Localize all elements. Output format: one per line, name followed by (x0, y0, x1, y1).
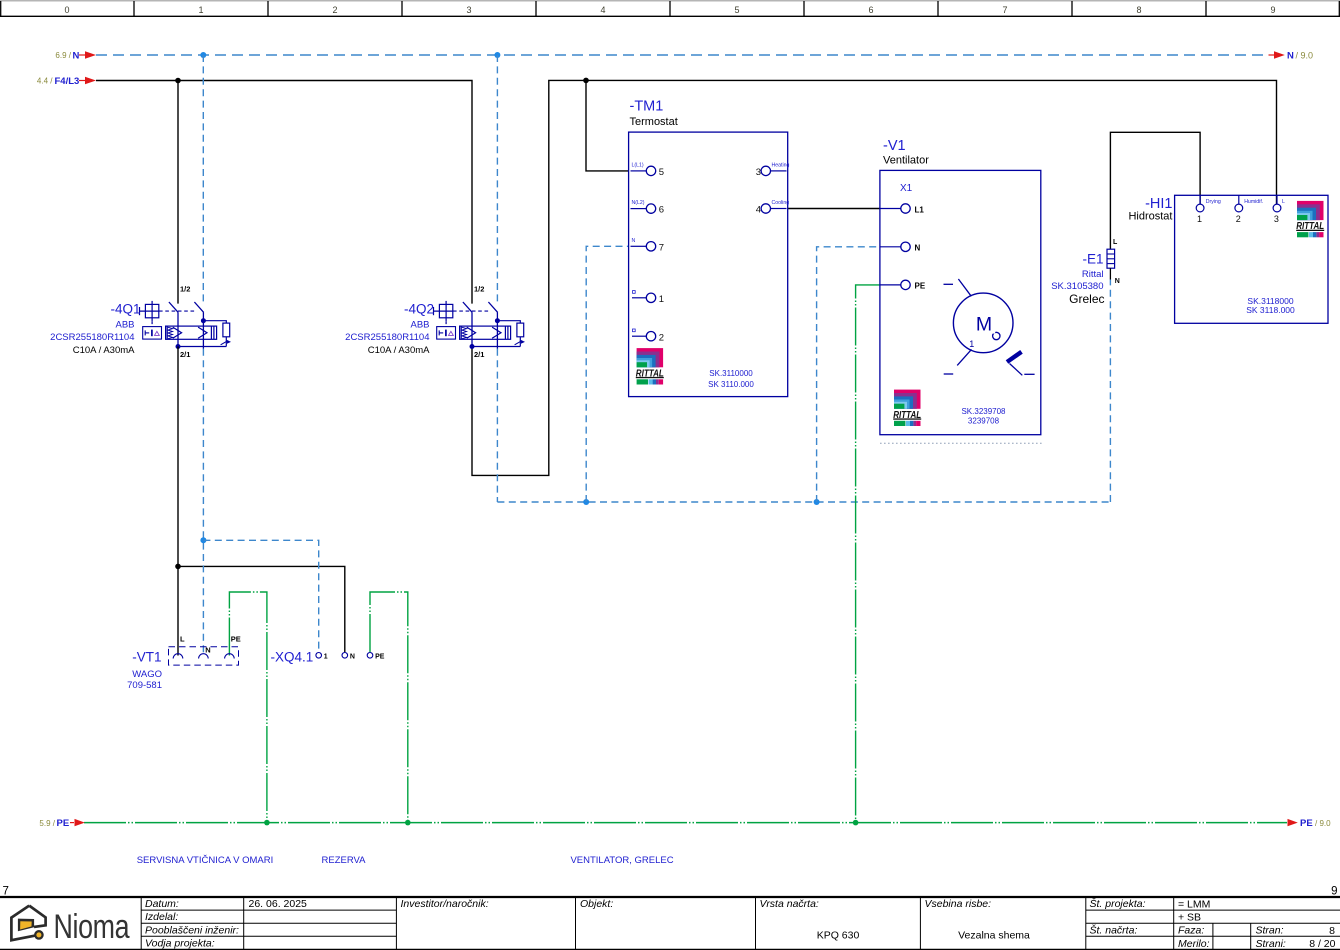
svg-text:+ SB: + SB (1178, 911, 1201, 923)
motor pin lower-left (944, 373, 954, 375)
breaker -4Q1 mechanism dashed link (159, 310, 197, 312)
wire L branch to -XQ4.1 N terminal (178, 566, 345, 652)
breaker -4Q1 body box (166, 326, 217, 339)
wire TM1 terminal 5 feed (586, 80, 629, 170)
terminal V1 L1 (880, 208, 901, 210)
wire PE to -VT1 (229, 592, 267, 823)
node -4Q1 pole2 test branch dot (201, 318, 206, 323)
node PE bus dot at -VT1 branch (264, 820, 270, 826)
svg-text:8 / 20: 8 / 20 (1309, 938, 1335, 950)
svg-text:7: 7 (659, 242, 664, 253)
svg-text:Stran:: Stran: (1256, 925, 1284, 937)
svg-text:L: L (1113, 239, 1118, 246)
svg-text:5.9 /: 5.9 / (39, 819, 55, 828)
breaker -4Q1 test actuator arrow (221, 341, 227, 345)
svg-text:Vodja projekta:: Vodja projekta: (145, 938, 215, 950)
svg-text:7: 7 (3, 886, 9, 898)
wire -E1 bottom stub (1109, 268, 1111, 279)
wire -4Q1 test resistor bottom (225, 337, 227, 347)
svg-text:N: N (73, 51, 80, 62)
svg-text:4.4 /: 4.4 / (37, 77, 53, 86)
svg-text:ABB: ABB (115, 319, 134, 330)
svg-text:-V1: -V1 (883, 138, 906, 154)
wire hidden function line under V1 (880, 442, 1042, 444)
resistor -4Q2 test (517, 323, 524, 337)
hygrostat U HI1 box (1175, 195, 1328, 323)
column ruler numbers (64, 5, 1275, 15)
svg-text:Vezalna shema: Vezalna shema (958, 929, 1030, 941)
svg-text:Pooblaščeni inženir:: Pooblaščeni inženir: (145, 924, 239, 936)
svg-text:2CSR255180R1104: 2CSR255180R1104 (50, 332, 134, 343)
svg-text:2/1: 2/1 (180, 350, 190, 359)
svg-text:3: 3 (466, 5, 471, 15)
node PE bus dot at -XQ4.1 branch (405, 820, 411, 826)
svg-text:SK.3239708: SK.3239708 (961, 407, 1006, 416)
svg-text:9: 9 (1270, 5, 1275, 15)
node N bus (neutral, dashed) (96, 54, 1267, 56)
svg-text:SK 3118.000: SK 3118.000 (1246, 305, 1295, 315)
wire N branch to -XQ4.1 terminal 1 (203, 540, 318, 652)
terminal TM1 pin 4 (771, 208, 787, 210)
svg-text:9: 9 (1331, 886, 1337, 898)
svg-text:5: 5 (734, 5, 739, 15)
wire -4Q1 pole1 through body (177, 312, 179, 346)
svg-text:SK.3105380: SK.3105380 (1051, 281, 1103, 292)
heater -E1 element (1107, 249, 1115, 268)
terminal HI1 pin 2 (1238, 195, 1240, 204)
terminal TM1 pin 7 (631, 245, 647, 247)
socket -VT1 contact PE (225, 654, 235, 659)
target arrow N right (1269, 54, 1275, 56)
node PE bus dot at -V1 branch (853, 820, 859, 826)
wire -4Q1 pole2 through body (202, 312, 204, 348)
wire -4Q2 pole2 output down (dashed N) (496, 349, 498, 502)
wire -4Q1 pole2 output down to -VT1 N (dashed N) (202, 349, 204, 656)
ventilator U V1 box (880, 170, 1041, 434)
svg-text:0: 0 (64, 5, 69, 15)
terminal TM1 pin 6 (631, 208, 647, 210)
svg-text:L: L (180, 635, 185, 644)
svg-text:1: 1 (659, 294, 664, 305)
column ruler ticks (1, 1, 1340, 16)
svg-text:KPQ 630: KPQ 630 (817, 929, 860, 941)
heater -E1 wire loop to HI1 pin 1 (1110, 132, 1200, 249)
svg-text:PE: PE (375, 653, 385, 660)
svg-text:1/2: 1/2 (180, 285, 190, 294)
svg-text:PE: PE (57, 818, 70, 829)
node -4Q2 pole1 output dot (470, 344, 475, 349)
breaker -4Q2 contact blade pole1 (463, 302, 472, 312)
svg-text:C10A / A30mA: C10A / A30mA (368, 345, 430, 356)
svg-text:Humidif.: Humidif. (1244, 199, 1263, 205)
svg-text:26. 06. 2025: 26. 06. 2025 (249, 898, 308, 910)
wire N drop to -4Q2 pole2 (496, 55, 498, 302)
target arrow PE right (1288, 819, 1298, 826)
svg-text:Heating: Heating (772, 162, 790, 168)
motor small circle (993, 332, 1000, 339)
svg-text:6: 6 (868, 5, 873, 15)
svg-text:/ 9.0: / 9.0 (1315, 819, 1331, 828)
svg-text:REZERVA: REZERVA (322, 855, 367, 866)
svg-text:SK.3110000: SK.3110000 (709, 369, 753, 378)
terminal V1 N (880, 246, 901, 248)
column ruler top border (0, 0, 1340, 2)
breaker -4Q1 test-button crossed square (140, 301, 159, 326)
socket -VT1 contact L (173, 654, 183, 659)
svg-text:F4/L3: F4/L3 (55, 76, 80, 87)
svg-text:N: N (632, 238, 636, 244)
terminal HI1 pin 1 (1199, 195, 1201, 204)
resistor -4Q1 test (223, 323, 230, 337)
svg-text:PE: PE (231, 635, 241, 644)
breaker -4Q2 test-button crossed square (434, 301, 453, 326)
node junction dot N run at TM1 branch (583, 499, 589, 505)
terminal TM1 pin 3 (771, 170, 787, 172)
motor M1 circle (953, 293, 1013, 353)
svg-text:N: N (1287, 51, 1294, 62)
wire -4Q1 test resistor branch (203, 321, 226, 323)
svg-text:Grelec: Grelec (1069, 292, 1104, 306)
terminal TM1 pin 5 (631, 170, 647, 172)
wire F4/L3 bus right section via -4Q2 output (472, 80, 1277, 475)
wire N branch to TM1 terminal 7 (586, 246, 628, 502)
title block vertical lines (141, 897, 1251, 950)
node junction dot F4/L3 at -4Q1 tap (175, 78, 181, 84)
wire -4Q2 pole2 through body (496, 312, 498, 348)
svg-text:3: 3 (1274, 214, 1279, 224)
wire -4Q1 pole1 output link (178, 346, 226, 348)
terminal -XQ4.1 pin N (342, 653, 348, 659)
wire -4Q2 test resistor branch (497, 321, 520, 323)
svg-text:Faza:: Faza: (1178, 925, 1204, 937)
node -4Q2 pole2 test branch dot (495, 318, 500, 323)
svg-text:PE: PE (915, 282, 926, 291)
wire -4Q1 pole1 output down to -VT1 L (177, 347, 179, 656)
svg-text:6: 6 (659, 205, 664, 216)
source arrow PE left (70, 822, 74, 824)
wire N run up to -E1 N (1109, 280, 1111, 503)
svg-text:2: 2 (659, 332, 664, 343)
svg-text:N: N (915, 244, 921, 253)
column ruler bottom line (0, 15, 1340, 17)
node junction dot N bus at -4Q2 (494, 52, 500, 58)
svg-text:2CSR255180R1104: 2CSR255180R1104 (345, 332, 429, 343)
terminal -XQ4.1 pin PE (367, 653, 373, 659)
thermostat U TM1 box (629, 132, 788, 397)
terminal V1 PE (880, 284, 901, 286)
svg-text:= LMM: = LMM (1178, 898, 1210, 910)
wire -4Q2 pole1 output link (472, 346, 520, 348)
node F4/L3 bus (96, 81, 472, 304)
svg-text:-TM1: -TM1 (630, 99, 664, 115)
svg-text:PE: PE (1300, 818, 1313, 829)
svg-text:709-581: 709-581 (127, 680, 162, 691)
wire -4Q2 test resistor bottom (519, 337, 521, 347)
node junction dot L branch to -XQ4.1 (175, 564, 181, 570)
wire N distribution run to -E1 (497, 501, 1110, 503)
svg-text:Merilo:: Merilo: (1178, 938, 1210, 950)
node junction dot N branch to -XQ4.1 (200, 537, 206, 543)
svg-text:2: 2 (1236, 214, 1241, 224)
svg-text:M: M (976, 314, 992, 336)
wire -4Q2 pole1 through body (471, 312, 473, 346)
svg-text:-4Q2: -4Q2 (404, 302, 434, 317)
terminal TM1 pin 2 (632, 335, 646, 337)
svg-text:L(L1): L(L1) (632, 162, 644, 168)
svg-text:-4Q1: -4Q1 (110, 302, 140, 317)
svg-text:8: 8 (1136, 5, 1141, 15)
svg-text:Cooling: Cooling (772, 200, 790, 206)
svg-text:6.9 /: 6.9 / (55, 51, 71, 60)
breaker -4Q2 contact blade pole2 (488, 302, 497, 312)
breaker -4Q1 contact blade pole1 (169, 302, 178, 312)
logo Nioma house icon (11, 906, 45, 941)
node PE bus (84, 822, 1287, 824)
socket -VT1 dashed outline (169, 647, 239, 665)
logo Rittal (TM1) (636, 348, 664, 384)
socket -VT1 contact N (199, 654, 209, 659)
svg-text:Vrsta načrta:: Vrsta načrta: (760, 898, 819, 910)
svg-text:/ 9.0: / 9.0 (1296, 50, 1314, 60)
svg-text:Ventilator: Ventilator (883, 155, 929, 167)
svg-text:L: L (1282, 199, 1285, 205)
wire N branch to -V1 terminal N (817, 247, 880, 502)
source arrow F4/L3 left (79, 80, 85, 82)
svg-text:7: 7 (1002, 5, 1007, 15)
svg-text:Objekt:: Objekt: (580, 898, 613, 910)
svg-text:1/2: 1/2 (474, 285, 484, 294)
svg-text:N: N (1115, 278, 1120, 285)
svg-text:N: N (350, 653, 355, 660)
breaker -4Q2 residual current sensor box (437, 327, 456, 340)
svg-text:2/1: 2/1 (474, 350, 484, 359)
breaker -4Q2 body box (460, 326, 511, 339)
breaker -4Q1 residual current sensor box (143, 327, 162, 340)
svg-text:Drying: Drying (1206, 199, 1221, 205)
svg-text:Hidrostat: Hidrostat (1128, 210, 1172, 222)
svg-text:-XQ4.1: -XQ4.1 (271, 650, 314, 665)
svg-text:-E1: -E1 (1082, 251, 1103, 266)
svg-text:Investitor/naročnik:: Investitor/naročnik: (401, 898, 489, 910)
title block horizontal lines (141, 910, 1340, 936)
node junction dot bus at TM1 tap (583, 78, 589, 84)
wire -4Q1 pole1 feed (177, 81, 179, 304)
wire PE to -V1 (856, 285, 880, 823)
breaker -4Q1 contact blade pole2 (194, 302, 203, 312)
wire PE to -XQ4.1 (370, 592, 408, 823)
svg-text:Datum:: Datum: (145, 898, 179, 910)
svg-text:SK 3110.000: SK 3110.000 (708, 380, 754, 389)
svg-text:SERVISNA VTIČNICA V OMARI: SERVISNA VTIČNICA V OMARI (137, 855, 274, 866)
svg-text:-VT1: -VT1 (132, 650, 161, 665)
node junction dot N bus at -4Q1 (200, 52, 206, 58)
svg-text:Št. načrta:: Št. načrta: (1090, 924, 1138, 937)
svg-text:L1: L1 (915, 205, 925, 214)
svg-text:1: 1 (198, 5, 203, 15)
logo Rittal (HI1) (1296, 201, 1324, 237)
svg-text:1: 1 (1197, 214, 1202, 224)
svg-text:Rittal: Rittal (1082, 269, 1104, 280)
svg-text:N: N (205, 645, 210, 654)
svg-text:Strani:: Strani: (1256, 938, 1286, 950)
wire TM1 terminal 4 to -V1 L1 (788, 208, 880, 210)
svg-text:8: 8 (1329, 925, 1335, 937)
svg-text:Nioma: Nioma (54, 908, 131, 946)
svg-text:X1: X1 (900, 183, 913, 194)
svg-text:3239708: 3239708 (968, 417, 1000, 426)
wire N drop to -4Q1 pole2 (202, 55, 204, 302)
svg-text:Termostat: Termostat (630, 116, 678, 128)
svg-text:4: 4 (756, 205, 761, 216)
node junction dot N run at V1 branch (814, 499, 820, 505)
svg-text:Vsebina risbe:: Vsebina risbe: (925, 898, 992, 910)
svg-text:Izdelal:: Izdelal: (145, 911, 178, 923)
terminal TM1 pin 1 (632, 297, 646, 299)
svg-text:VENTILATOR, GRELEC: VENTILATOR, GRELEC (570, 855, 673, 866)
svg-text:ABB: ABB (410, 319, 429, 330)
svg-text:C10A / A30mA: C10A / A30mA (73, 345, 135, 356)
title block frame (0, 896, 1340, 898)
breaker -4Q2 test actuator arrow (515, 341, 521, 345)
motor pin lower-right with capacitor stroke (1007, 352, 1022, 362)
svg-text:Št. projekta:: Št. projekta: (1090, 897, 1146, 910)
terminal -XQ4.1 pin 1 (316, 653, 322, 659)
svg-text:N(L2): N(L2) (632, 200, 645, 206)
source arrow N left (79, 54, 85, 56)
svg-text:4: 4 (600, 5, 605, 15)
svg-text:1: 1 (969, 339, 974, 349)
node -4Q1 pole1 output dot (176, 344, 181, 349)
svg-text:5: 5 (659, 167, 664, 178)
svg-text:3: 3 (756, 167, 761, 178)
motor pin upper-left (944, 283, 954, 285)
svg-text:1: 1 (324, 653, 328, 660)
breaker -4Q2 mechanism dashed link (453, 310, 491, 312)
svg-text:2: 2 (332, 5, 337, 15)
svg-text:WAGO: WAGO (132, 669, 162, 680)
logo Rittal (V1) (893, 390, 921, 426)
terminal HI1 pin 3 (1276, 195, 1278, 204)
